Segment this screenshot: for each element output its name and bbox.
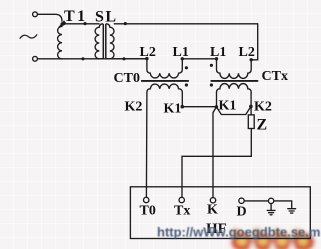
wire top terminal to T1 [38,14,62,21]
ground symbol under earth terminal [267,204,275,215]
svg-text:CT0: CT0 [114,71,140,86]
svg-text:http://wWw.goegdbte.se.m: http://wWw.goegdbte.se.m [157,225,320,240]
transformer T1 winding [58,27,62,59]
wire CTx K1 lead down to junction [216,92,218,107]
wire K1 junction to Z top trapezoid [216,107,251,115]
svg-text:D: D [237,205,247,220]
svg-text:K2: K2 [254,100,272,115]
wire right drop to CTx L2 [251,24,258,60]
wire L1 CT0 to L1 CTx [182,58,216,60]
polarity dot CT0 K1 [185,83,188,86]
SL primary winding [95,24,102,59]
svg-text:T1: T1 [64,8,88,25]
svg-text:T0: T0 [140,204,156,219]
watermark logo blobs [232,229,315,249]
node CT0 K1 junction [181,105,185,109]
AC source tilde symbol [20,35,37,39]
svg-text:K: K [207,203,218,218]
node CT0 L1 [181,57,184,60]
svg-text:K1: K1 [219,99,237,114]
wire SL secondary bottom to CT0 L2 [114,58,147,60]
AC source bottom terminal [33,56,38,61]
svg-text:L2: L2 [239,45,255,60]
node dot right of SL top [124,22,127,25]
wire K1 to K1 junction [182,106,216,108]
terminal K [210,198,215,203]
T1 wiper arrowhead [59,21,67,28]
junction dots [61,22,253,109]
terminal T0 [144,197,149,202]
wire bottom terminal along bottom [38,58,147,60]
CT0 secondary winding K2-K1 [147,84,182,92]
svg-text:L1: L1 [173,45,189,60]
svg-text:Z: Z [257,116,268,133]
svg-text:Tx: Tx [174,204,190,219]
terminal D [239,198,244,203]
resistor Z [248,115,254,129]
terminal Tx [179,197,184,202]
SL secondary winding [106,24,114,59]
node CTx L2 [250,58,253,61]
node dot left of SL top [83,22,86,25]
svg-text:L2: L2 [140,45,156,60]
earth terminal circle [268,198,273,203]
polarity dot CTx L1 [210,64,213,67]
labels [64,8,118,26]
svg-text:K2: K2 [125,100,143,115]
wire SL secondary top long run to right [114,23,257,25]
polarity dot CTx K1 [210,83,213,86]
wire T1 tap to SL [62,23,99,25]
wire CT0 K2 down to T0 terminal [145,92,148,197]
svg-text:SL: SL [95,9,118,26]
node T1 top junction [61,22,64,25]
HF instrument box [130,187,310,239]
SL core [103,25,106,59]
node CT0 L2 [145,57,148,60]
wire CTx K2 to Z [250,92,252,115]
CT0 primary winding L2-L1 [147,58,182,78]
node K1 common junction [215,105,219,109]
CTx primary winding L1-L2 [217,58,252,78]
wire K1 junction to K terminal [213,107,216,198]
node dot left of SL bottom [81,57,84,60]
node dot right of SL bottom [122,57,125,60]
node CTx L1 [215,57,218,60]
CTx core [211,80,257,82]
svg-text:K1: K1 [164,102,182,117]
wire Z bottom to Tx [182,129,251,198]
svg-text:CTx: CTx [262,69,288,84]
wire D to earth terminal [244,201,292,209]
CTx secondary winding K1-K2 [217,84,252,93]
polarity dot CT0 L1 [185,66,188,69]
CT0 core [142,80,188,82]
AC source top terminal [33,12,38,17]
svg-text:L1: L1 [210,45,226,60]
ground symbol right [288,209,296,213]
node Z top junction [249,105,253,109]
wire CT0 K1 down to junction [181,92,183,106]
